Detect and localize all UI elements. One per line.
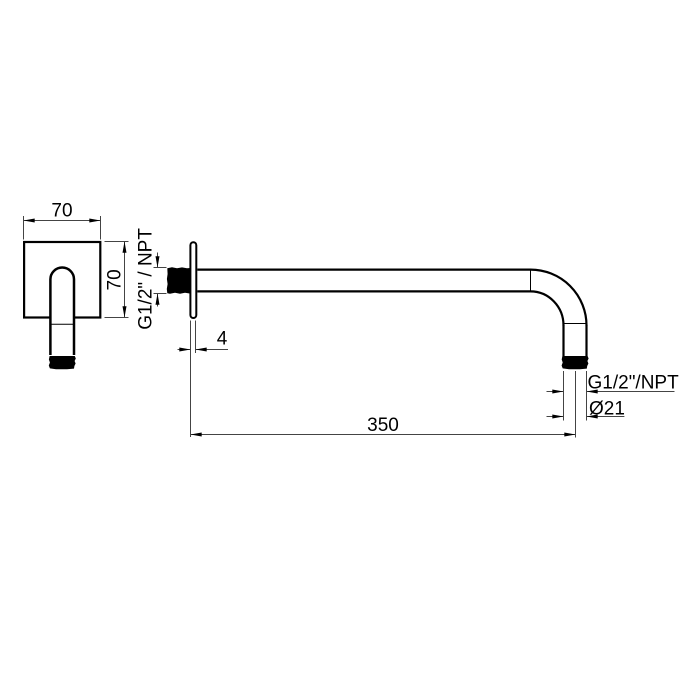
side view: wall flange plate (capsule) bbox=[190, 242, 196, 318]
dimension G1/2"/NPT (outlet thread) bbox=[547, 372, 680, 393]
svg-text:70: 70 bbox=[51, 200, 72, 221]
front view: threaded outlet tip (black) bbox=[49, 356, 76, 369]
dimension 4 (flange plate thickness) bbox=[178, 321, 229, 438]
svg-text:4: 4 bbox=[217, 329, 228, 350]
dimension 350 (arm length) bbox=[191, 415, 576, 436]
front view: flange square plate bbox=[24, 242, 100, 319]
side view: elbow bend arcs bbox=[531, 270, 587, 326]
dimension 70 (vertical, front view height) bbox=[104, 242, 128, 318]
svg-text:Ø21: Ø21 bbox=[589, 398, 625, 419]
svg-text:G1/2"/NPT: G1/2"/NPT bbox=[588, 372, 680, 393]
svg-text:G1/2" / NPT: G1/2" / NPT bbox=[135, 228, 156, 330]
front view: arm tube with rounded elbow top bbox=[50, 268, 74, 356]
dimension 70 (horizontal, front view width) bbox=[24, 200, 101, 239]
label G1/2" / NPT (rotated, wall nipple thread) bbox=[135, 228, 156, 330]
front view: tube section divider line bbox=[50, 323, 74, 325]
svg-text:350: 350 bbox=[367, 415, 399, 436]
side view: vertical drop tube lines bbox=[564, 325, 587, 356]
side view: bend tangent line (horizontal, across drop tube) bbox=[564, 323, 587, 325]
side view: arm straight tube lines bbox=[197, 270, 530, 292]
side view: threaded wall nipple G1/2 (black) bbox=[167, 267, 191, 293]
side view: bend tangent line (vertical, at start of bend) bbox=[530, 270, 532, 291]
dimension Ø21 (outlet tube diameter) bbox=[547, 398, 625, 419]
side view: threaded outlet tip (black) bbox=[562, 356, 589, 369]
svg-text:70: 70 bbox=[104, 269, 125, 290]
dimension extension lines (outlet, right) bbox=[564, 371, 587, 438]
dimension: wall nipple thread (arrows, side view left) bbox=[154, 253, 167, 307]
